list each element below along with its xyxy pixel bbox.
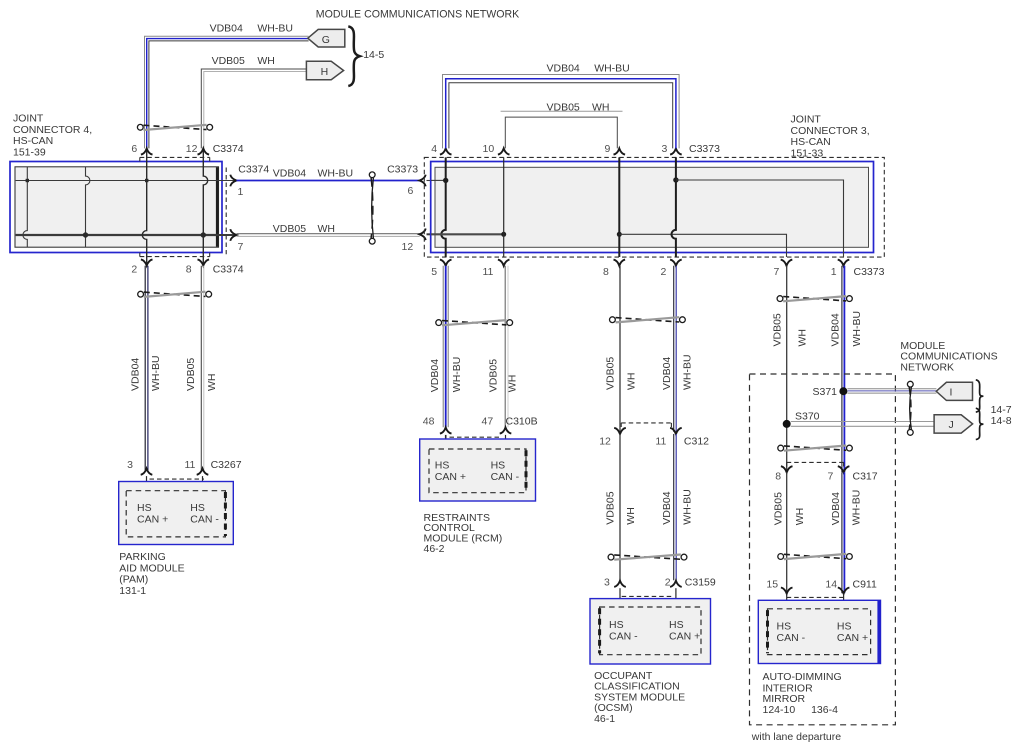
brace 14-7 bbox=[976, 380, 984, 412]
connector C317 dashes bbox=[787, 462, 844, 466]
svg-text:11: 11 bbox=[185, 459, 196, 471]
svg-text:C3373: C3373 bbox=[387, 164, 418, 176]
svg-text:HS: HS bbox=[777, 621, 792, 633]
splice S371 bbox=[839, 387, 847, 395]
svg-text:VDB04: VDB04 bbox=[210, 23, 243, 35]
pin 12 arrow C312 bbox=[614, 428, 626, 434]
svg-text:WH: WH bbox=[625, 507, 637, 525]
wire VDB04 WH-BU from C3374 pin 2 to PAM bbox=[145, 266, 148, 471]
connector C310B dashes bbox=[450, 436, 503, 438]
junction dot on bottom bus bbox=[83, 232, 88, 237]
svg-text:3: 3 bbox=[604, 577, 610, 589]
wire VDB04 WH-BU from C3374 pin 1 to C3373 pin 6 bbox=[237, 180, 420, 182]
pin 1 stub wire bbox=[219, 180, 237, 182]
svg-text:I: I bbox=[950, 387, 953, 399]
vertical twisted-pair symbol I/J bundles bbox=[907, 381, 913, 435]
junction square pin 6 top bus bbox=[145, 179, 148, 182]
connector J bbox=[934, 415, 973, 433]
svg-text:47: 47 bbox=[482, 415, 494, 427]
svg-text:WH: WH bbox=[592, 101, 610, 113]
svg-text:HS: HS bbox=[190, 502, 205, 514]
connector C911 dashes bbox=[787, 596, 844, 598]
connector C3373 dashed outline bbox=[424, 157, 884, 257]
connector C3267 dashes bbox=[150, 478, 205, 480]
svg-text:VDB04: VDB04 bbox=[830, 492, 842, 525]
svg-text:8: 8 bbox=[603, 266, 609, 278]
svg-text:C3374: C3374 bbox=[238, 164, 269, 176]
svg-text:131-1: 131-1 bbox=[119, 585, 146, 597]
pin 6 arrow bbox=[141, 148, 153, 154]
svg-text:C312: C312 bbox=[684, 436, 709, 448]
wire stubs into RCM bbox=[445, 435, 447, 450]
wire VDB04 WH-BU from C3373 pin 2 to C312 bbox=[674, 266, 677, 432]
connector C312 dashes bbox=[621, 423, 671, 427]
svg-text:11: 11 bbox=[483, 266, 494, 278]
svg-text:WH-BU: WH-BU bbox=[451, 357, 463, 393]
svg-text:H: H bbox=[321, 66, 329, 78]
svg-text:S371: S371 bbox=[813, 386, 838, 398]
svg-text:CAN -: CAN - bbox=[190, 513, 219, 525]
bottom pin arrows C3373 bbox=[440, 260, 849, 266]
svg-text:WH: WH bbox=[794, 508, 806, 526]
svg-text:8: 8 bbox=[186, 264, 192, 276]
wire VDB04 WH-BU from C3373 pin 1 down bbox=[842, 266, 845, 472]
bus wire bottom (HS-CAN-) inside joint connector 4 bbox=[16, 234, 219, 236]
auto-dimming interior mirror box bbox=[758, 600, 880, 663]
svg-text:1: 1 bbox=[238, 186, 244, 198]
connector H (in-line to module communications network) bbox=[306, 61, 343, 79]
internal wire pin 6 to pin 4/5 bbox=[431, 179, 446, 181]
svg-text:124-10: 124-10 bbox=[763, 704, 796, 716]
svg-text:G: G bbox=[322, 34, 330, 46]
svg-text:VDB04: VDB04 bbox=[429, 359, 441, 392]
svg-text:AUTO-DIMMING: AUTO-DIMMING bbox=[763, 671, 842, 683]
svg-text:WH: WH bbox=[625, 373, 637, 391]
svg-text:WH-BU: WH-BU bbox=[594, 63, 630, 75]
internal pin wire 6-2 of joint connector 4 bbox=[142, 149, 146, 266]
svg-text:CAN -: CAN - bbox=[609, 630, 638, 642]
svg-text:S370: S370 bbox=[795, 410, 820, 422]
occupant classification system module box bbox=[590, 599, 711, 664]
internal pin wire 3-2 bbox=[672, 157, 676, 257]
C3373 pin 6 stub bbox=[427, 180, 432, 182]
svg-text:J: J bbox=[949, 419, 954, 431]
splice S370 bbox=[783, 420, 791, 428]
svg-text:C3374: C3374 bbox=[213, 143, 244, 155]
svg-text:WH: WH bbox=[206, 374, 218, 392]
svg-text:11: 11 bbox=[655, 436, 666, 448]
svg-text:PARKING: PARKING bbox=[119, 551, 165, 563]
C3373 pin 12 stub bbox=[427, 233, 432, 235]
bundle from S371 to connector I bbox=[847, 389, 936, 393]
connector C3159 dashes bbox=[622, 595, 673, 597]
pin 8 arrow C317 bbox=[781, 466, 793, 472]
svg-text:HS: HS bbox=[609, 619, 624, 631]
svg-text:48: 48 bbox=[423, 415, 435, 427]
pin 11 arrow C312 bbox=[670, 428, 682, 434]
svg-text:3: 3 bbox=[662, 143, 668, 155]
pin 2 arrow C3159 bbox=[670, 581, 682, 587]
svg-text:VDB04: VDB04 bbox=[273, 168, 306, 180]
svg-text:46-1: 46-1 bbox=[594, 713, 615, 725]
svg-text:VDB05: VDB05 bbox=[772, 492, 784, 525]
connector G (in-line to module communications network) bbox=[308, 29, 345, 47]
C3373 pin 6 arrow (left side) bbox=[420, 175, 426, 187]
svg-text:VDB05: VDB05 bbox=[604, 491, 616, 524]
wire VDB05 WH from C3373 pin 11 to RCM bbox=[505, 266, 508, 428]
svg-text:JOINT: JOINT bbox=[13, 113, 44, 125]
svg-text:AID MODULE: AID MODULE bbox=[119, 562, 184, 574]
pin 48 arrow C310B bbox=[440, 427, 452, 433]
connector I bbox=[936, 382, 972, 400]
wire stubs into OCSM bbox=[619, 588, 621, 607]
brace 14-5 bbox=[348, 26, 359, 86]
svg-text:6: 6 bbox=[408, 185, 414, 197]
svg-text:JOINT: JOINT bbox=[791, 114, 822, 126]
wire VDB05 WH from C3374 pin 7 to C3373 pin 12 bbox=[237, 234, 420, 237]
wire VDB04 WH-BU from C312 to OCSM bbox=[674, 434, 677, 580]
svg-text:HS: HS bbox=[435, 460, 450, 472]
svg-text:WH-BU: WH-BU bbox=[682, 489, 694, 525]
svg-text:HS-CAN: HS-CAN bbox=[791, 136, 831, 148]
connector C3374 top dashes bbox=[140, 157, 210, 161]
svg-text:VDB05: VDB05 bbox=[488, 359, 500, 392]
twisted-pair symbol PAM branch bbox=[138, 291, 212, 297]
internal wire pin 3 to pin 1 bbox=[676, 180, 844, 257]
pin 14 arrow C911 bbox=[838, 588, 850, 594]
svg-text:12: 12 bbox=[402, 241, 414, 253]
wire VDB05 WH from C3373 pin 8 to C312 bbox=[619, 266, 621, 432]
svg-text:C317: C317 bbox=[853, 471, 878, 483]
svg-text:8: 8 bbox=[775, 471, 781, 483]
pin 2 arrow bbox=[141, 259, 153, 265]
svg-text:CAN -: CAN - bbox=[491, 471, 520, 483]
svg-text:7: 7 bbox=[828, 471, 834, 483]
brace 14-8 bbox=[976, 408, 984, 439]
svg-text:VDB04: VDB04 bbox=[661, 491, 673, 524]
junction dot pin 3 wire bbox=[673, 177, 678, 182]
svg-text:CAN +: CAN + bbox=[435, 471, 466, 483]
twisted-pair symbol RCM branch bbox=[436, 320, 513, 326]
svg-text:HS: HS bbox=[669, 619, 684, 631]
twisted-pair symbol above joint connector 4 bbox=[137, 124, 212, 130]
pin 7 arrow C317 bbox=[838, 466, 850, 472]
internal pin wire 2 of joint connector 4 bbox=[86, 167, 90, 247]
svg-text:14: 14 bbox=[825, 579, 837, 591]
pin 47 arrow C310B bbox=[500, 427, 512, 433]
svg-text:WH-BU: WH-BU bbox=[257, 23, 293, 35]
svg-text:VDB05: VDB05 bbox=[185, 358, 197, 391]
wire stubs into mirror bbox=[786, 594, 788, 609]
svg-text:14-5: 14-5 bbox=[363, 49, 384, 61]
connector C3374 right dashes bbox=[225, 168, 227, 255]
svg-text:CAN +: CAN + bbox=[137, 513, 168, 525]
junction square on top bus bbox=[26, 179, 29, 182]
svg-text:10: 10 bbox=[483, 143, 495, 155]
svg-text:9: 9 bbox=[605, 143, 611, 155]
svg-text:5: 5 bbox=[431, 266, 437, 278]
svg-text:7: 7 bbox=[774, 266, 780, 278]
with lane departure dashed box bbox=[750, 374, 896, 725]
pin 8 arrow bbox=[198, 259, 210, 265]
svg-text:2: 2 bbox=[665, 577, 671, 589]
pin 7 stub wire bbox=[219, 234, 237, 236]
svg-text:C911: C911 bbox=[853, 579, 877, 591]
svg-text:2: 2 bbox=[131, 264, 137, 276]
svg-text:HS: HS bbox=[491, 460, 506, 472]
pin 7 arrow bbox=[230, 229, 236, 241]
svg-text:WH-BU: WH-BU bbox=[851, 311, 863, 347]
svg-text:VDB04: VDB04 bbox=[661, 357, 673, 390]
junction dot pin 4 wire bbox=[443, 178, 448, 183]
svg-text:C3373: C3373 bbox=[854, 266, 885, 278]
internal wire pin 12 to pin 10/11 bbox=[431, 233, 504, 235]
svg-text:7: 7 bbox=[238, 241, 244, 253]
svg-text:WH: WH bbox=[257, 55, 275, 67]
wire VDB05 WH from C3373 pin 7 down bbox=[786, 266, 788, 472]
svg-text:CAN -: CAN - bbox=[777, 632, 806, 644]
joint connector 3 box C3373 bbox=[431, 162, 874, 253]
svg-text:14-8: 14-8 bbox=[991, 415, 1012, 427]
svg-text:CAN +: CAN + bbox=[669, 630, 700, 642]
internal pin wire 9-8 bbox=[618, 157, 620, 257]
svg-text:VDB04: VDB04 bbox=[129, 358, 141, 391]
wire stubs into PAM bbox=[146, 476, 148, 491]
wire VDB05 WH from C312 to OCSM bbox=[619, 434, 621, 580]
svg-text:136-4: 136-4 bbox=[811, 704, 838, 716]
junction dot pin 8 wire bbox=[617, 232, 622, 237]
internal pin wire 1 of joint connector 4 bbox=[23, 167, 27, 247]
pin 3 arrow C3159 bbox=[614, 581, 626, 587]
pin 1 arrow bbox=[230, 175, 236, 187]
svg-text:WH-BU: WH-BU bbox=[150, 355, 162, 391]
svg-text:VDB05: VDB05 bbox=[212, 55, 245, 67]
pin 12 arrow bbox=[198, 148, 210, 154]
internal pin wire 12-8 of joint connector 4 bbox=[203, 149, 207, 266]
joint connector 4 box C3374 bbox=[10, 162, 222, 253]
wire VDB04 WH-BU from C3373 pin 5 to RCM bbox=[443, 266, 448, 428]
svg-text:151-39: 151-39 bbox=[13, 146, 46, 158]
svg-text:12: 12 bbox=[599, 436, 611, 448]
C3373 pin 12 arrow (left side) bbox=[420, 229, 426, 241]
bundle from S370 to connector J bbox=[791, 422, 935, 427]
wire VDB04 WH-BU from C317 to C911 bbox=[842, 472, 845, 593]
parking aid module box bbox=[119, 482, 234, 545]
svg-text:WH-BU: WH-BU bbox=[318, 168, 354, 180]
junction dot pin 12 bottom bus bbox=[201, 232, 206, 237]
svg-text:VDB04: VDB04 bbox=[830, 313, 842, 346]
twisted-pair symbol OCSM upper bbox=[610, 317, 686, 323]
svg-text:VDB05: VDB05 bbox=[604, 357, 616, 390]
svg-text:HS: HS bbox=[137, 502, 152, 514]
svg-text:12: 12 bbox=[186, 143, 198, 155]
svg-text:MODULE COMMUNICATIONS NETWORK: MODULE COMMUNICATIONS NETWORK bbox=[316, 9, 519, 21]
svg-text:CAN +: CAN + bbox=[837, 632, 868, 644]
svg-text:WH: WH bbox=[797, 329, 809, 347]
internal pin wire 10-11 bbox=[503, 157, 505, 257]
svg-text:1: 1 bbox=[831, 266, 837, 278]
svg-text:(PAM): (PAM) bbox=[119, 574, 148, 586]
svg-text:3: 3 bbox=[127, 459, 133, 471]
wire VDB04 WH-BU from C3374 pin 6 to connector G bbox=[145, 36, 309, 148]
svg-text:2: 2 bbox=[661, 266, 667, 278]
svg-text:CONNECTOR 4,: CONNECTOR 4, bbox=[13, 124, 92, 136]
bus wire top (HS-CAN+) inside joint connector 4 bbox=[16, 180, 219, 182]
svg-text:WH-BU: WH-BU bbox=[681, 354, 693, 390]
internal pin wire 4-5 bbox=[441, 157, 445, 257]
svg-text:WH: WH bbox=[507, 375, 519, 393]
svg-text:4: 4 bbox=[431, 143, 437, 155]
vertical twisted-pair symbol between connectors bbox=[369, 172, 375, 244]
internal wire pin 8 to pin 7 bbox=[619, 234, 786, 257]
svg-text:HS-CAN: HS-CAN bbox=[13, 135, 53, 147]
svg-text:C310B: C310B bbox=[506, 415, 538, 427]
svg-text:CONNECTOR 3,: CONNECTOR 3, bbox=[791, 125, 870, 137]
svg-text:C3373: C3373 bbox=[689, 143, 720, 155]
svg-text:6: 6 bbox=[131, 143, 137, 155]
top pin arrows C3373 bbox=[440, 148, 682, 154]
wire VDB05 WH from C3374 pin 12 to connector H bbox=[201, 69, 306, 148]
twisted-pair symbol above C911 bbox=[778, 554, 853, 560]
twisted-pair symbol above C317 bbox=[778, 445, 853, 451]
svg-text:VDB05: VDB05 bbox=[273, 223, 306, 235]
restraints control module box bbox=[420, 439, 536, 501]
twisted-pair symbol mirror upper bbox=[777, 296, 852, 302]
wire VDB05 WH from C317 to C911 bbox=[786, 472, 788, 593]
pin 15 arrow C911 bbox=[781, 588, 793, 594]
svg-text:C3267: C3267 bbox=[211, 459, 242, 471]
svg-text:C3159: C3159 bbox=[685, 577, 716, 589]
connector C3374 bottom dashes bbox=[140, 253, 210, 257]
twisted-pair symbol OCSM lower bbox=[608, 554, 687, 560]
svg-text:VDB04: VDB04 bbox=[547, 63, 580, 75]
svg-text:VDB05: VDB05 bbox=[547, 101, 580, 113]
svg-text:NETWORK: NETWORK bbox=[900, 361, 954, 373]
wire VDB05 WH loop from pin 10 to pin 9 bbox=[501, 111, 623, 148]
svg-text:VDB05: VDB05 bbox=[772, 313, 784, 346]
svg-text:46-2: 46-2 bbox=[424, 543, 445, 555]
svg-text:WH-BU: WH-BU bbox=[851, 490, 863, 526]
wire VDB05 WH from C3374 pin 8 to PAM bbox=[201, 266, 204, 471]
wire VDB04 WH-BU loop from pin 4 to pin 3 bbox=[443, 75, 680, 149]
svg-text:C3374: C3374 bbox=[213, 264, 244, 276]
svg-text:HS: HS bbox=[837, 621, 852, 633]
pin 11 arrow C3267 bbox=[197, 469, 209, 475]
pin 3 arrow C3267 bbox=[141, 469, 153, 475]
svg-text:15: 15 bbox=[766, 579, 778, 591]
junction dot pin 11 wire bbox=[501, 232, 506, 237]
svg-text:with lane departure: with lane departure bbox=[751, 731, 841, 743]
svg-text:WH: WH bbox=[318, 223, 336, 235]
